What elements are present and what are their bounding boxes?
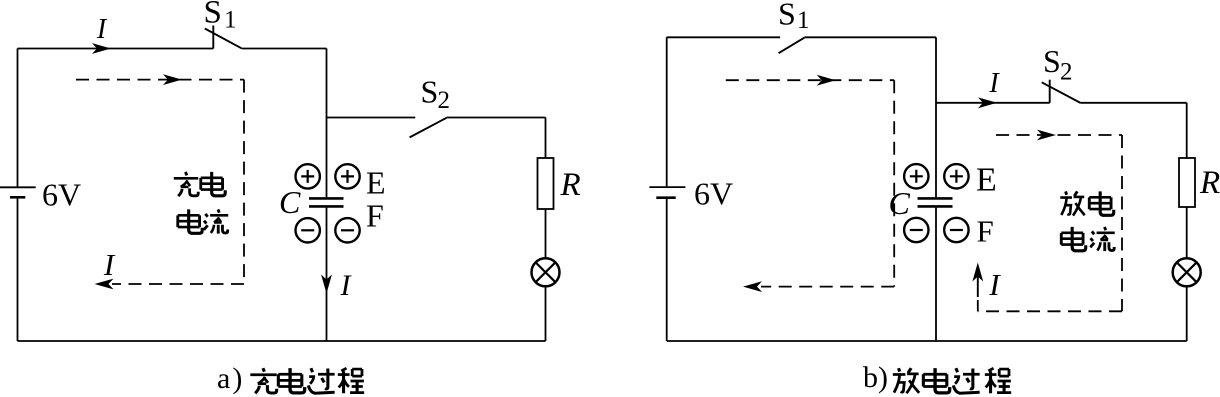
arrow: current left on left-mesh dashed bottom (circuit b) <box>743 281 762 292</box>
dashed discharge loop bottom (circuit b) <box>978 310 1122 312</box>
wire: circuit b bottom wire <box>667 340 1187 342</box>
resistor R (circuit a) <box>538 158 554 209</box>
dashed charging-current path bottom (circuit a) <box>112 283 244 285</box>
charge signs: minus circles F plate (circuit b) <box>904 218 969 242</box>
wire: circuit b top wire right segment <box>804 36 936 38</box>
label: charging current text line2 (dian liu) <box>178 209 228 233</box>
svg-text:R: R <box>560 167 581 203</box>
svg-text:S: S <box>1043 43 1061 79</box>
arrow: current right on left-mesh dashed top (circuit b) <box>817 75 836 86</box>
svg-text:1: 1 <box>224 6 237 33</box>
arrow: current I on circuit a top wire <box>92 43 111 54</box>
arrow: discharge current up with shaft (circuit b) <box>972 263 983 298</box>
svg-text:I: I <box>96 14 108 45</box>
svg-text:E: E <box>366 165 386 201</box>
capacitor C plates (circuit a) <box>309 198 344 206</box>
wire: capacitor branch lower segment (circuit a) <box>326 208 328 341</box>
wire: S2 branch wire left segment (circuit a) <box>327 117 416 119</box>
arrow: charging current right on dashed top (circuit a) <box>163 74 182 85</box>
wire: circuit b right vertical upper <box>1186 103 1188 158</box>
wire: circuit a top wire left segment <box>18 48 214 50</box>
svg-text:6V: 6V <box>694 176 733 212</box>
wire: circuit a right vertical lower <box>545 286 547 341</box>
wire: S2 branch wire left segment (circuit b) <box>936 102 1050 104</box>
svg-text:2: 2 <box>1060 58 1073 85</box>
switch S2 (circuit b): contact tick and blade <box>1042 80 1081 103</box>
svg-text:I: I <box>988 267 1001 302</box>
dashed charging-current path top (circuit a) <box>76 79 244 81</box>
label: S2 (circuit b) <box>1043 43 1073 85</box>
dashed loop left mesh top (circuit b) <box>726 79 894 81</box>
label: S1 (circuit b) <box>778 0 810 34</box>
svg-text:F: F <box>366 198 384 234</box>
svg-text:2: 2 <box>438 87 451 114</box>
svg-text:I: I <box>988 68 1000 99</box>
svg-text:E: E <box>976 162 997 199</box>
svg-text:C: C <box>279 184 301 220</box>
dashed charging-current path right side (circuit a) <box>243 80 245 284</box>
arrow: discharge current right on dashed top (circuit b) <box>1037 130 1056 141</box>
arrow: current I down capacitor branch (circuit a) <box>321 275 332 294</box>
svg-text:a): a) <box>217 362 244 395</box>
wire: circuit a top wire right segment <box>242 48 327 50</box>
svg-text:I: I <box>103 247 116 282</box>
wire: circuit b right vertical lower <box>1186 286 1188 341</box>
label: charging current text line1 (chong dian) <box>174 172 225 196</box>
svg-text:1: 1 <box>797 7 810 34</box>
wire: capacitor branch upper segment (circuit a) <box>326 49 328 198</box>
label: S1 (circuit a) <box>204 0 237 33</box>
battery B1 6V (circuit a) <box>0 187 36 197</box>
switch S1 blade (circuit b) <box>779 38 805 54</box>
wire: circuit a right vertical middle <box>545 209 547 258</box>
wire: circuit b top wire left segment <box>667 36 780 38</box>
svg-text:C: C <box>889 185 911 221</box>
svg-text:b): b) <box>863 361 888 394</box>
svg-text:6V: 6V <box>42 177 81 213</box>
label: discharge current text line1 (fang dian) <box>1060 191 1113 215</box>
caption a: a) charging process <box>217 362 364 395</box>
wire: circuit a left vertical lower (battery bottom lead) <box>17 198 19 341</box>
svg-text:R: R <box>1199 165 1220 201</box>
resistor R (circuit b) <box>1179 158 1195 207</box>
battery B2 6V (circuit b) <box>649 187 685 198</box>
wire: circuit a bottom wire <box>18 340 546 342</box>
svg-text:S: S <box>204 0 222 31</box>
wire: S2 branch wire right segment (circuit b) <box>1081 102 1187 104</box>
caption b: b) discharging process <box>863 361 1011 394</box>
capacitor C plates (circuit b) <box>918 198 953 206</box>
dashed discharge loop top (circuit b right mesh) <box>996 134 1122 136</box>
svg-text:I: I <box>340 269 353 302</box>
wire: circuit b middle vertical upper (capacitor branch) <box>935 37 937 197</box>
svg-text:S: S <box>421 74 439 110</box>
label: discharge current text line2 (dian liu) <box>1061 227 1114 251</box>
wire: circuit b left vertical lower (battery bottom lead) <box>666 198 668 341</box>
wire: circuit a right vertical upper <box>545 118 547 159</box>
switch S1 (circuit a): contact tick and blade <box>205 26 242 49</box>
svg-text:S: S <box>778 0 796 32</box>
wire: S2 branch wire right segment (circuit a) <box>447 117 546 119</box>
switch S2 blade (circuit a) <box>410 118 447 138</box>
svg-text:F: F <box>977 214 994 249</box>
wire: circuit a left vertical upper (battery top lead) <box>17 49 19 187</box>
charge signs: plus circles E plate (circuit a) <box>296 164 360 188</box>
dashed discharge loop right side (circuit b) <box>1121 135 1123 311</box>
arrow: charging current left on dashed bottom (circuit a) <box>95 279 114 290</box>
dashed loop left mesh bottom (circuit b) <box>761 286 894 288</box>
label: S2 (circuit a) <box>421 74 451 114</box>
lamp L2 (circuit b) <box>1173 258 1201 286</box>
wire: circuit b right vertical middle <box>1186 207 1188 258</box>
lamp L1 (circuit a) <box>532 258 560 286</box>
charge signs: minus circles F plate (circuit a) <box>296 218 360 242</box>
wire: circuit b left vertical upper (battery top lead) <box>666 37 668 186</box>
dashed discharge loop left stub (circuit b) <box>977 300 979 311</box>
charge signs: plus circles E plate (circuit b) <box>904 164 969 188</box>
arrow: current I on S2 branch wire (circuit b) <box>978 97 997 108</box>
wire: circuit b middle vertical lower (capacitor branch) <box>935 208 937 341</box>
dashed loop left mesh right side (circuit b) <box>893 80 895 286</box>
